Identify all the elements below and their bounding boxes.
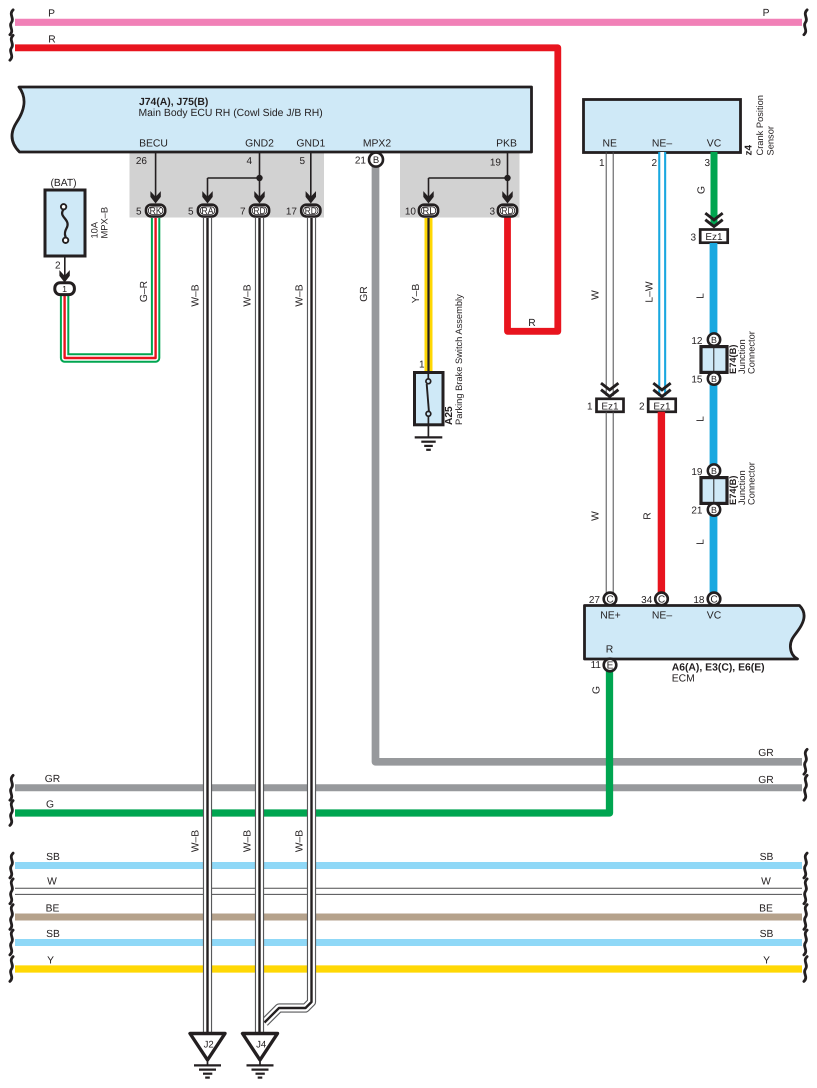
oval connector 1 xyxy=(55,283,75,295)
svg-text:GR: GR xyxy=(758,775,773,786)
wire G (green bus from ECM pin 11) xyxy=(10,668,610,825)
svg-text:Crank Position: Crank Position xyxy=(755,95,765,155)
svg-text:VC: VC xyxy=(707,139,722,150)
svg-text:RD: RD xyxy=(254,206,266,217)
svg-text:3: 3 xyxy=(489,206,495,217)
wire W-B 2 (from RD 7 to J4) xyxy=(243,218,260,1040)
svg-text:2: 2 xyxy=(55,261,61,272)
svg-text:Ez1: Ez1 xyxy=(653,401,671,412)
arrow + oval RK pin 5 xyxy=(136,191,165,217)
wire W from Ez1 1 to ECM NE+ xyxy=(590,412,613,595)
svg-text:7: 7 xyxy=(240,206,246,217)
wire R (red bus, turns down to PKB RD) xyxy=(10,35,558,332)
junction connector E74(B) upper xyxy=(691,331,756,385)
connector Ez1 pin 1 xyxy=(587,399,624,413)
wire G (VC) from sensor to Ez1 xyxy=(697,152,715,226)
svg-text:3: 3 xyxy=(690,233,696,244)
svg-text:J74(A), J75(B): J74(A), J75(B) xyxy=(139,97,208,108)
svg-text:C: C xyxy=(710,595,717,606)
svg-text:BE: BE xyxy=(759,904,773,915)
wire GR bus 2 xyxy=(10,774,807,800)
svg-text:B: B xyxy=(711,505,717,515)
svg-text:SB: SB xyxy=(760,929,774,940)
svg-text:10A: 10A xyxy=(90,221,100,238)
wire W-B 3 (from RD 17, bends into J4) xyxy=(265,218,312,1023)
svg-text:z4: z4 xyxy=(744,145,755,156)
svg-text:MPX–B: MPX–B xyxy=(100,207,110,239)
svg-text:G: G xyxy=(46,800,54,811)
svg-text:R: R xyxy=(606,645,614,656)
svg-text:RL: RL xyxy=(423,206,436,217)
svg-text:4: 4 xyxy=(246,156,252,167)
svg-text:W: W xyxy=(590,511,601,521)
svg-text:R: R xyxy=(528,318,535,329)
svg-text:W–B: W–B xyxy=(295,284,306,306)
wire GR from MPX2 down and right xyxy=(359,163,807,774)
svg-text:Ez1: Ez1 xyxy=(705,232,723,243)
svg-text:12: 12 xyxy=(691,336,703,347)
svg-text:W: W xyxy=(761,877,771,888)
svg-text:Main Body ECU RH (Cowl Side J/: Main Body ECU RH (Cowl Side J/B RH) xyxy=(139,108,323,119)
svg-text:Parking Brake Switch Assembly: Parking Brake Switch Assembly xyxy=(454,294,464,425)
svg-text:2: 2 xyxy=(639,402,645,413)
arrow + oval RD pin 7 xyxy=(240,191,269,217)
svg-text:PKB: PKB xyxy=(496,139,517,150)
svg-text:R: R xyxy=(48,35,55,46)
svg-text:NE: NE xyxy=(602,139,617,150)
svg-text:W–B: W–B xyxy=(191,830,202,852)
wire W (NE) from sensor to Ez1 xyxy=(590,152,613,396)
svg-text:W: W xyxy=(590,290,601,300)
svg-text:GR: GR xyxy=(359,286,370,301)
pin wire GND2 4 with branch xyxy=(208,152,263,198)
pin wire PKB 19 with branch xyxy=(429,152,511,198)
sensor pin numbers xyxy=(599,158,711,169)
svg-text:G: G xyxy=(592,686,603,694)
svg-text:MPX2: MPX2 xyxy=(363,139,392,150)
svg-text:BE: BE xyxy=(46,904,60,915)
ECM block A6(A), E3(C), E6(E) xyxy=(585,606,805,685)
svg-text:GND2: GND2 xyxy=(245,139,274,150)
svg-text:ECM: ECM xyxy=(672,674,695,685)
svg-text:5: 5 xyxy=(188,206,194,217)
svg-text:Y: Y xyxy=(47,956,54,967)
pin wire GND1 5 xyxy=(299,152,310,198)
chevron into Ez1 2 xyxy=(653,383,670,396)
svg-text:B: B xyxy=(373,155,379,166)
svg-text:Y–B: Y–B xyxy=(411,284,422,304)
chevron into Ez1 3 xyxy=(705,213,722,226)
svg-text:21: 21 xyxy=(355,156,367,167)
ECM pin circle C 34 xyxy=(641,593,668,606)
svg-text:10: 10 xyxy=(405,206,417,217)
svg-text:Ez1: Ez1 xyxy=(601,401,619,412)
svg-text:E: E xyxy=(607,661,614,672)
wire Y-B from RL to A25 xyxy=(411,218,429,373)
wire BE bus xyxy=(10,904,807,930)
wire L from Ez1 3 to ECM VC xyxy=(696,243,714,595)
svg-text:VC: VC xyxy=(707,611,722,622)
connector Ez1 pin 3 xyxy=(690,230,727,244)
svg-text:B: B xyxy=(711,466,717,476)
svg-text:19: 19 xyxy=(691,467,703,478)
svg-text:NE+: NE+ xyxy=(600,611,621,622)
svg-text:Junction: Junction xyxy=(737,339,747,374)
arrow + oval RD pin 3 xyxy=(489,191,517,217)
svg-text:L: L xyxy=(696,293,707,299)
svg-text:Junction: Junction xyxy=(737,470,747,505)
ECM pin circle C 27 xyxy=(589,593,616,606)
svg-text:W: W xyxy=(47,877,57,888)
wire P (pink bus) xyxy=(10,8,807,35)
pin wire BECU 26 xyxy=(136,152,156,198)
wire L-W (NE-) from sensor to Ez1 xyxy=(645,152,663,396)
svg-text:18: 18 xyxy=(693,595,705,606)
svg-text:RD: RD xyxy=(502,206,514,217)
svg-text:27: 27 xyxy=(589,595,601,606)
ground J2 xyxy=(190,1034,225,1078)
switch A25 box xyxy=(415,294,465,425)
svg-text:GR: GR xyxy=(45,774,60,785)
svg-text:G: G xyxy=(697,186,708,194)
svg-text:21: 21 xyxy=(691,505,703,516)
svg-text:5: 5 xyxy=(299,156,305,167)
ground J4 xyxy=(243,1034,278,1078)
svg-text:B: B xyxy=(711,374,717,384)
connector shade block 1 xyxy=(130,152,325,218)
sensor box z4 xyxy=(584,95,776,155)
ECM pin circle E 11 xyxy=(591,659,617,672)
svg-text:1: 1 xyxy=(587,402,593,413)
svg-text:1: 1 xyxy=(62,284,67,294)
svg-text:GND1: GND1 xyxy=(296,139,325,150)
svg-text:(BAT): (BAT) xyxy=(50,178,76,189)
chevron into Ez1 1 xyxy=(601,383,618,396)
svg-text:Connector: Connector xyxy=(747,462,757,505)
wire SB bus 1 xyxy=(10,852,807,878)
wire W bus xyxy=(10,877,807,904)
svg-text:RA: RA xyxy=(202,206,215,217)
svg-text:19: 19 xyxy=(490,158,502,169)
svg-text:W–B: W–B xyxy=(243,830,254,852)
svg-text:P: P xyxy=(763,8,770,19)
svg-text:G–R: G–R xyxy=(139,281,150,302)
connector shade block 2 xyxy=(400,152,520,218)
svg-text:GR: GR xyxy=(758,748,773,759)
svg-text:SB: SB xyxy=(46,852,60,863)
svg-text:17: 17 xyxy=(286,206,298,217)
svg-text:SB: SB xyxy=(46,929,60,940)
svg-text:15: 15 xyxy=(691,374,703,385)
svg-text:L: L xyxy=(696,416,707,422)
svg-text:Y: Y xyxy=(763,956,770,967)
junction block J74(A) J75(B) xyxy=(12,87,531,152)
arrow + oval RL pin 10 xyxy=(405,191,438,217)
svg-text:R: R xyxy=(643,512,654,519)
svg-text:11: 11 xyxy=(591,660,602,671)
svg-text:26: 26 xyxy=(136,156,148,167)
svg-text:W–B: W–B xyxy=(295,830,306,852)
svg-text:2: 2 xyxy=(651,158,657,169)
svg-text:NE–: NE– xyxy=(652,139,672,150)
fuse pin 2 wire and arrow xyxy=(55,256,70,283)
wire Y bus xyxy=(10,956,807,982)
wire W-B 1 (from RA 5 to J2) xyxy=(191,218,208,1040)
svg-text:W–B: W–B xyxy=(191,284,202,306)
svg-text:BECU: BECU xyxy=(139,139,168,150)
svg-text:NE–: NE– xyxy=(652,611,672,622)
pin MPX2 21 connector B xyxy=(355,152,383,167)
svg-text:RD: RD xyxy=(305,206,317,217)
arrow + oval RA pin 5 xyxy=(188,191,217,217)
svg-text:B: B xyxy=(711,335,717,345)
junction connector E74(B) lower xyxy=(691,462,756,516)
connector Ez1 pin 2 xyxy=(639,399,676,413)
svg-text:Connector: Connector xyxy=(747,331,757,374)
svg-text:L: L xyxy=(696,539,707,545)
wire G-R from fuse to RK xyxy=(65,218,156,358)
wire SB bus 2 xyxy=(10,929,807,955)
ground below A25 xyxy=(415,425,443,450)
svg-text:Sensor: Sensor xyxy=(766,126,776,155)
svg-text:J4: J4 xyxy=(256,1040,267,1051)
svg-text:A6(A), E3(C), E6(E): A6(A), E3(C), E6(E) xyxy=(672,663,765,674)
svg-text:J2: J2 xyxy=(204,1040,214,1051)
ECM pin circle C 18 xyxy=(693,593,720,606)
fuse box (BAT) xyxy=(45,178,110,256)
svg-text:RK: RK xyxy=(150,206,163,217)
svg-text:P: P xyxy=(48,9,55,20)
arrow + oval RD pin 17 xyxy=(286,191,321,217)
svg-text:SB: SB xyxy=(760,852,774,863)
svg-text:5: 5 xyxy=(136,206,142,217)
svg-text:C: C xyxy=(606,595,613,606)
svg-text:L–W: L–W xyxy=(645,281,656,302)
svg-text:1: 1 xyxy=(599,158,605,169)
wire R from Ez1 2 to ECM NE- xyxy=(643,412,662,595)
svg-text:34: 34 xyxy=(641,595,653,606)
svg-text:3: 3 xyxy=(704,158,710,169)
svg-text:C: C xyxy=(658,595,665,606)
svg-text:1: 1 xyxy=(419,360,425,371)
svg-text:W–B: W–B xyxy=(243,284,254,306)
